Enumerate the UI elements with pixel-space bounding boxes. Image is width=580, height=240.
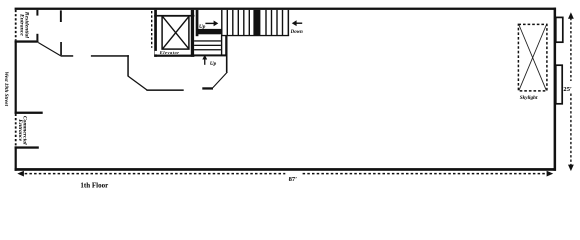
partition vertical	[127, 55, 129, 76]
stair black bar under Up arrow	[197, 29, 222, 34]
residential entrance dashed opening	[15, 10, 17, 41]
stair lower flight tread 1	[194, 40, 221, 41]
elevator door white notch	[155, 51, 159, 55]
Up right arrow	[205, 21, 218, 27]
skylight dashed box	[518, 24, 547, 91]
residential vestibule right wall upper segment	[36, 10, 38, 16]
svg-text:Skylight: Skylight	[520, 95, 538, 101]
stair enclosure right wall lower extension	[226, 54, 228, 72]
elevator left wall	[154, 10, 157, 57]
wall stub at top of lobby	[60, 10, 62, 22]
Up arrow vertical	[202, 55, 207, 65]
street label	[3, 72, 9, 107]
elevator right wall	[191, 10, 194, 57]
Down left arrow	[292, 20, 302, 26]
svg-text:Down: Down	[290, 30, 303, 35]
svg-text:1th Floor: 1th Floor	[80, 182, 108, 190]
stairwell left wall	[196, 10, 199, 36]
commercial entrance lower wall	[15, 146, 39, 148]
window bump upper	[556, 17, 563, 42]
svg-text:Entrance: Entrance	[19, 13, 25, 36]
dimension line 87ft dashed left	[20, 173, 285, 175]
elevator X diagonal 1	[163, 17, 189, 49]
residential entrance label	[19, 11, 30, 39]
svg-text:Up: Up	[199, 24, 206, 30]
svg-text:Up: Up	[210, 61, 217, 67]
partition diagonal	[128, 76, 147, 90]
skylight X diagonal 1	[519, 25, 546, 90]
commercial entrance upper wall	[15, 112, 43, 114]
svg-text:Elevator: Elevator	[159, 50, 179, 55]
stairwell bottom edge of tread run	[221, 35, 289, 36]
dimension line 25ft dashed upper	[570, 18, 572, 81]
window bump lower	[556, 65, 562, 104]
dimension line 25ft dashed lower	[570, 94, 572, 166]
svg-text:Entrance: Entrance	[17, 118, 23, 141]
svg-text:87′: 87′	[289, 176, 298, 183]
dimension line 87ft dashed right	[303, 173, 548, 175]
stair lower flight right inner wall	[221, 36, 222, 56]
elevator X diagonal 2	[163, 17, 189, 49]
stair break black band	[253, 10, 260, 36]
elevator top line	[154, 15, 194, 17]
stair treads upper flight	[222, 10, 283, 36]
dimension 25ft down arrowhead	[568, 165, 574, 172]
wall right	[554, 8, 557, 171]
partition door stub bar	[202, 87, 213, 89]
partition wall segment A	[61, 55, 73, 57]
stair door leaf	[213, 72, 228, 88]
elevator shaft dashed line	[151, 11, 153, 48]
svg-text:West 19th Street: West 19th Street	[3, 72, 9, 107]
wall left upper-solid segment	[15, 40, 17, 113]
wall bottom	[15, 168, 556, 171]
wall top	[15, 8, 556, 10]
wall left lower-solid segment	[15, 146, 17, 170]
dimension 25ft up arrowhead	[568, 12, 574, 19]
wall stub above partition	[60, 42, 62, 55]
commercial entrance label	[17, 116, 28, 145]
elevator cab box	[162, 16, 189, 49]
stair lower flight right outer wall	[225, 36, 227, 56]
residential vestibule right wall lower segment	[36, 34, 38, 41]
partition horizontal lower	[146, 89, 183, 91]
stair lower flight tread 3	[194, 49, 221, 50]
residential vestibule bottom wall	[15, 40, 39, 42]
skylight X diagonal 2	[519, 25, 546, 90]
stairwell right wall	[288, 10, 290, 36]
dimension 87ft right arrowhead	[547, 171, 554, 177]
dimension 87ft left arrowhead	[17, 171, 24, 177]
stair lower flight bottom edge	[191, 54, 228, 56]
stair lower flight tread 2	[194, 45, 221, 46]
svg-text:25′: 25′	[563, 86, 572, 93]
residential door leaf	[38, 43, 61, 56]
elevator bottom wall	[154, 55, 194, 57]
partition wall segment B	[91, 55, 129, 57]
commercial entrance dashed opening	[15, 114, 17, 147]
